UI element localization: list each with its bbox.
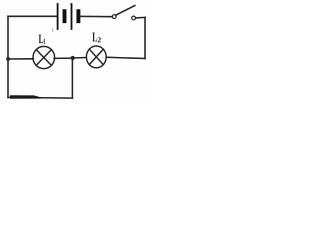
battery cell plate (long, positive) 1 <box>57 4 59 29</box>
wire battery to switch <box>80 15 112 17</box>
lamp L1 circle <box>33 46 55 68</box>
switch S terminal circle left <box>112 15 116 19</box>
switch S blade (open) <box>116 6 135 16</box>
wire right rail <box>144 17 146 58</box>
wire left rail to lamp L1 <box>8 58 33 60</box>
wire top left segment <box>8 15 57 17</box>
battery cell bar (short, negative) 2 <box>76 11 80 21</box>
wire switch to top-right corner <box>136 16 146 19</box>
wire bottom <box>8 96 72 99</box>
wire junction vertical down <box>71 58 73 98</box>
battery cell bar (short, negative) 1 <box>63 11 67 21</box>
label L2 subscript "2" <box>98 37 101 42</box>
wire left rail <box>7 16 9 97</box>
wire L2 to right rail <box>107 57 145 58</box>
wire junction to L2 <box>73 57 86 60</box>
lamp L2 cross <box>89 49 103 64</box>
label L2 "L" <box>92 33 97 42</box>
node junction dot between lamps <box>71 56 75 60</box>
wire bottom thick segment <box>10 95 41 99</box>
lamp L2 circle <box>86 46 106 68</box>
battery cell plate (long, positive) 2 <box>71 4 73 29</box>
switch S terminal circle right <box>132 16 136 20</box>
lamp L1 cross <box>36 50 51 66</box>
node junction dot on left rail <box>6 57 10 61</box>
faint scan mark above L1 <box>52 28 54 31</box>
wire L1 to junction <box>54 57 73 59</box>
label L1 subscript "1" <box>44 39 46 44</box>
label L1 "L" <box>39 35 44 44</box>
